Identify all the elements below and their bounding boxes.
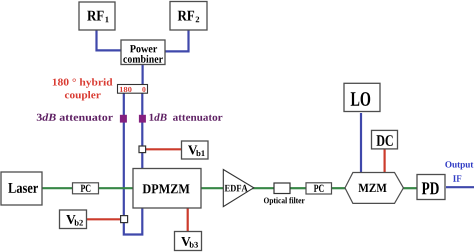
box RF1: [79, 2, 115, 30]
label 3dB attenuator: [37, 113, 113, 120]
wire hybrid 0-port to DPMZM top: [141, 94, 143, 170]
node B bias tap to Vb2: [121, 216, 128, 223]
wire PC1 to DPMZM: [99, 187, 134, 189]
wire RF2 to power combiner: [165, 30, 189, 51]
wire optical filter to PC2: [290, 187, 306, 189]
wire power combiner to hybrid coupler: [142, 65, 144, 86]
label 180 deg hybrid coupler: [53, 78, 113, 100]
wire LO to MZM: [360, 113, 362, 174]
node A bias tap to Vb1: [139, 146, 146, 153]
attenuator 1dB (purple square): [139, 115, 146, 123]
wire DPMZM to EDFA: [201, 187, 224, 189]
wire DPMZM to Vb3: [187, 208, 189, 232]
box optical filter: [274, 183, 290, 194]
box LO: [344, 83, 380, 111]
box hybrid coupler: [118, 85, 148, 94]
box Vb3: [175, 232, 202, 251]
box Vb2: [60, 210, 87, 229]
box PD: [417, 175, 445, 200]
wire hybrid 180-port to DPMZM bottom: [124, 94, 143, 235]
wire EDFA to optical filter: [252, 187, 274, 189]
wire Vb2 to bias node B: [86, 218, 121, 220]
wire DC to MZM: [384, 149, 386, 174]
box PC1: [73, 183, 99, 194]
wire Laser to PC1: [42, 187, 73, 189]
box DC: [372, 130, 398, 149]
wire MZM to PD: [403, 187, 418, 189]
label Output IF: [445, 161, 473, 182]
box DPMZM: [133, 169, 201, 209]
label 1dB attenuator: [150, 113, 223, 120]
box PC2: [306, 183, 332, 194]
amplifier EDFA: [223, 170, 253, 207]
label Optical filter: [264, 197, 305, 205]
modulator MZM hexagon: [345, 173, 403, 204]
box power combiner: [121, 40, 165, 65]
wire PC2 to MZM: [332, 187, 347, 189]
box RF2: [170, 2, 207, 31]
box Vb1: [182, 141, 209, 159]
wire bias node A to Vb1: [146, 148, 183, 150]
attenuator 3dB (purple square): [120, 115, 127, 123]
wire RF1 to power combiner: [97, 30, 122, 50]
wire PD output IF: [446, 186, 474, 188]
box Laser: [1, 172, 42, 205]
